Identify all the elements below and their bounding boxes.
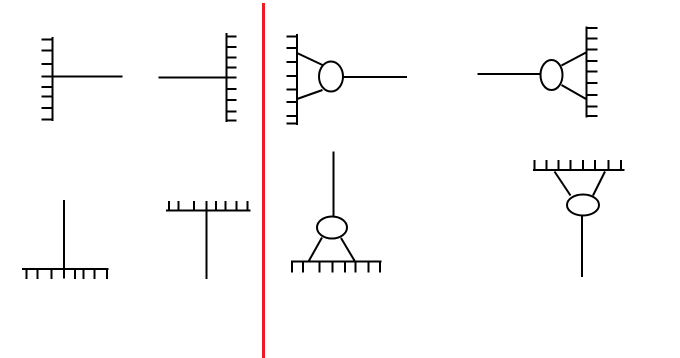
symbol 6: lower slant (ellipse to spine)	[562, 85, 587, 99]
symbol 5: lower slant (spine to ellipse)	[297, 90, 323, 99]
symbol 6: upper slant (ellipse to spine)	[562, 53, 587, 66]
symbol 7: vertical line (from top)	[333, 152, 335, 217]
symbol 1: comb teeth	[42, 40, 54, 120]
symbol 1: comb spine (vertical, teeth left)	[52, 37, 54, 121]
symbol 6: comb teeth	[586, 28, 598, 116]
symbol 7: comb spine (horizontal, teeth down)	[291, 261, 382, 263]
symbol 7: right slant (ellipse to spine)	[341, 238, 355, 262]
symbol 6: ellipse	[541, 60, 563, 90]
symbol 3: comb spine (horizontal, teeth down)	[22, 268, 109, 270]
symbol 5: horizontal line (to right)	[344, 76, 408, 78]
symbol 8: comb teeth	[535, 160, 622, 171]
symbol 3: comb teeth	[27, 269, 108, 280]
symbol 5: comb teeth	[287, 37, 299, 124]
symbol 5: upper slant (spine to ellipse)	[297, 53, 323, 65]
symbol 2: horizontal line (from left)	[159, 77, 237, 79]
symbol 5: ellipse	[319, 62, 343, 92]
symbol 7: ellipse	[317, 217, 347, 239]
symbol 2: comb teeth	[226, 37, 237, 121]
symbol 8: left slant (spine to ellipse)	[555, 172, 571, 196]
symbol 4: comb teeth	[169, 201, 248, 211]
symbol 8: ellipse	[567, 195, 599, 216]
symbol 8: right slant (spine to ellipse)	[593, 172, 605, 196]
symbol 2: comb spine (vertical, teeth right)	[226, 33, 228, 122]
symbol 1: horizontal line (to right)	[42, 76, 123, 78]
symbol 8: comb spine (horizontal, teeth up)	[533, 169, 625, 171]
symbol 6: comb spine (vertical, teeth right)	[586, 27, 588, 118]
symbol 3: vertical line (from top)	[63, 200, 65, 279]
symbol 4: vertical line (down)	[206, 201, 208, 279]
symbol 4: comb spine (horizontal, teeth up)	[166, 210, 251, 212]
red divider line	[262, 3, 265, 358]
symbol 7: left slant (ellipse to spine)	[309, 238, 323, 262]
symbol 5: comb spine (vertical, teeth left)	[296, 34, 298, 125]
symbol 8: vertical line (down)	[581, 216, 583, 278]
symbol 7: comb teeth	[292, 261, 380, 273]
symbol 6: horizontal line (from left)	[478, 73, 541, 75]
